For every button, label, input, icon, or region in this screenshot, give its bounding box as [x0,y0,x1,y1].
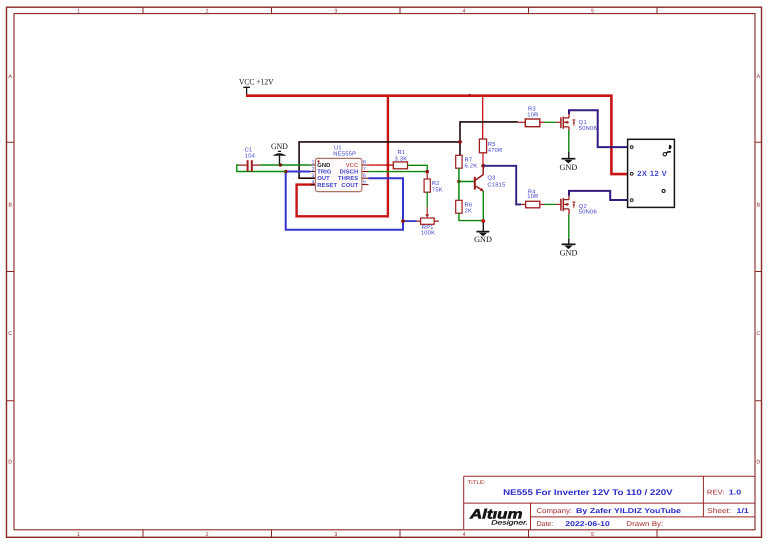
svg-text:R2: R2 [432,180,440,187]
wire base (green) [459,181,475,183]
wire TRIG/THRES loop (blue) [286,172,403,230]
svg-text:75K: 75K [432,188,443,194]
wire blue spur to RP1 [403,220,417,222]
svg-text:C: C [8,331,12,337]
svg-text:B: B [8,203,12,209]
svg-text:C: C [756,331,760,337]
junction tick on rail [469,94,471,96]
resistor R7 [456,155,478,169]
ruler numbers bottom [77,532,594,538]
wire VCC rail (thick red) [246,96,631,174]
svg-text:6.2K: 6.2K [465,162,478,169]
svg-text:A: A [756,74,760,80]
power port VCC +12V [239,78,274,95]
svg-text:NE555 For Inverter 12V To 110: NE555 For Inverter 12V To 110 / 220V [503,488,673,497]
resistor R1 [393,150,407,169]
svg-text:10R: 10R [527,193,538,200]
svg-text:GND: GND [560,163,578,172]
svg-text:GND: GND [271,142,288,151]
svg-text:3: 3 [312,173,315,179]
transformer 2X 12 V [628,139,675,207]
svg-text:R1: R1 [398,150,406,156]
junction GND/C1 [279,163,282,166]
wire to R2 (dark red) [426,172,428,179]
U1 right pin stubs [362,165,369,185]
svg-text:D: D [756,460,760,466]
ground GND under Q2 [560,239,578,258]
svg-text:3.3K: 3.3K [395,155,408,162]
svg-text:1.0: 1.0 [729,490,742,497]
svg-text:COUT: COUT [341,182,358,189]
svg-text:2K: 2K [465,207,473,214]
svg-text:B: B [756,203,760,209]
svg-text:TRIG: TRIG [317,169,332,176]
svg-text:A: A [8,74,12,80]
wire OUT node (black) [299,122,518,178]
svg-text:OUT: OUT [317,175,330,182]
svg-text:VCC: VCC [346,162,359,169]
svg-text:2: 2 [206,532,209,538]
junction VCC/pin8 [386,163,389,166]
ground GND under Q1 [560,152,578,172]
svg-text:5: 5 [591,532,594,538]
svg-text:10R: 10R [527,111,538,118]
U1 pin numbers [312,160,366,186]
ruler numbers top [77,8,594,14]
svg-text:THRES: THRES [338,175,358,182]
svg-text:50N06: 50N06 [579,209,597,216]
wire R2 to RP1 wiper (green then arrow) [425,192,429,218]
svg-text:Drawn By:: Drawn By: [626,521,663,528]
svg-text:RESET: RESET [317,182,337,189]
transistor Q2 50N06 (MOSFET) [561,196,597,216]
wire DISCH (green) [368,171,427,173]
svg-text:Date:: Date: [537,521,554,528]
junction base node [457,180,460,183]
svg-text:C1815: C1815 [487,182,505,189]
ground GND near C1 (up-pointing style) [271,142,288,164]
svg-text:VCC +12V: VCC +12V [239,78,274,87]
svg-text:2X 12 V: 2X 12 V [637,169,667,178]
svg-text:5: 5 [591,8,594,14]
Altium Designer logo [469,506,528,526]
resistor R3 [525,105,540,126]
junction blue/RP1 [401,219,405,223]
wire pin8 VCC to R1 (red) [368,164,393,166]
wire to R3 stub (dark red) [518,121,526,123]
svg-text:GND: GND [317,162,330,169]
wire Q2 drain to transformer (navy) [569,191,630,200]
resistor R2 [424,179,443,194]
svg-text:Designer.: Designer. [491,519,528,526]
ground GND under Q3 [474,223,492,245]
resistor R5 [479,139,502,154]
resistor R6 [456,200,473,214]
transistor Q3 C1815 [475,166,506,192]
capacitor C1 [239,147,261,172]
title block [464,476,755,530]
svg-text:DISCH: DISCH [340,169,359,176]
svg-text:4: 4 [463,8,466,14]
wire R7 to base node (green) [458,168,460,181]
pin stubs U1 left (dark) [311,165,316,185]
wire C1 left U-loop (green) [237,165,286,172]
junction OUT node [458,140,462,144]
svg-text:NE555P: NE555P [333,152,356,158]
resistor R4 [521,189,540,207]
wire R1 right (green) [408,165,428,171]
svg-text:100K: 100K [421,229,435,236]
svg-text:TITLE:: TITLE: [468,480,486,486]
svg-text:By Zafer YILDIZ YouTube: By Zafer YILDIZ YouTube [576,507,681,515]
wire R4 to Q2 gate (green) [540,203,561,205]
wire R3 to Q1 gate (green) [540,121,561,123]
svg-text:1: 1 [312,160,315,166]
potentiometer RP1 [417,218,439,236]
junction C1/TRIG [284,170,288,174]
transistor Q1 50N06 (MOSFET) [561,114,597,132]
svg-text:Q3: Q3 [487,175,495,182]
svg-text:1: 1 [77,8,80,14]
wire Q1 source to ground (green) [568,130,570,152]
svg-text:2: 2 [206,8,209,14]
svg-text:4: 4 [463,532,466,538]
svg-text:470R: 470R [488,147,503,154]
svg-text:D: D [8,460,12,466]
junction R1/R2/DISCH [425,170,429,174]
wire R6 bottom to emitter (green) [459,213,483,220]
junction collector node [481,164,485,168]
svg-text:104: 104 [245,153,256,160]
wire RESET loop (thick red) [297,97,388,217]
wire Q2 source to ground (green) [568,214,570,238]
svg-text:50N06: 50N06 [579,125,597,132]
svg-text:1/1: 1/1 [737,507,749,515]
wire base node to R6 (green) [458,182,460,201]
svg-text:2: 2 [312,166,315,172]
U1 pin names [317,162,359,189]
IC U1 NE555P body [315,146,362,192]
svg-text:2022-06-10: 2022-06-10 [565,521,610,528]
wire Q1 drain to transformer (navy) [569,110,630,147]
wire R5 to collector (red) [482,153,484,166]
svg-text:GND: GND [560,249,578,258]
wire emitter down (green) [482,191,484,220]
svg-text:GND: GND [474,235,492,244]
ruler letters [8,74,760,466]
svg-text:REV:: REV: [707,490,725,497]
svg-text:Company:: Company: [537,508,573,515]
svg-text:3: 3 [334,532,337,538]
svg-text:4: 4 [312,180,315,186]
svg-text:R3: R3 [528,105,536,112]
wire VCC to R5 (thin red) [482,97,484,140]
junction emitter/R6/GND [481,219,485,223]
wire C1 right to pin1 (green) [260,164,311,166]
svg-text:Sheet:: Sheet: [707,507,731,515]
svg-text:1: 1 [77,532,80,538]
svg-text:3: 3 [334,8,337,14]
wire collector node to R4 (navy) [483,166,521,205]
